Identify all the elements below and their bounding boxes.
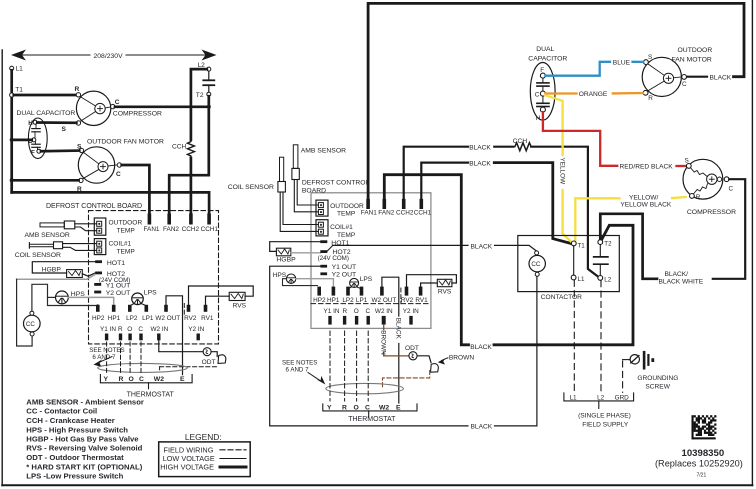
- svg-text:YELLOW BLACK: YELLOW BLACK: [620, 202, 672, 209]
- contactor box: [518, 236, 620, 292]
- terminal R compressor right: [690, 194, 695, 199]
- wire CC top to HPS/HP2: [32, 284, 98, 311]
- node T1: [10, 93, 14, 97]
- terminal F dual cap: [37, 149, 41, 153]
- page border bottom: [2, 484, 752, 486]
- terminal HOT1 middle: [320, 240, 327, 243]
- svg-text:T1: T1: [15, 87, 23, 94]
- terminal W2 IN middle: [382, 316, 386, 325]
- svg-text:BLACK: BLACK: [710, 75, 732, 82]
- svg-text:Y2 IN: Y2 IN: [188, 326, 204, 333]
- terminal T1 contactor: [571, 241, 576, 246]
- wire contactor T2 to compressor C (BLACK/BLACK WHITE): [600, 214, 657, 279]
- connector COIL#1 TEMP middle: [316, 220, 328, 236]
- wire compressor C to T2 node: [115, 105, 209, 108]
- wire L1 rail to fan R: [12, 179, 79, 182]
- svg-text:RV2: RV2: [184, 315, 197, 322]
- svg-text:ODT: ODT: [405, 345, 419, 352]
- junction dot L1/fan R: [10, 178, 14, 182]
- wire L2 to CCH2 rail: [191, 69, 207, 139]
- svg-text:HPS: HPS: [273, 272, 287, 279]
- svg-text:RVS: RVS: [438, 288, 452, 295]
- terminal W2 OUT middle: [380, 287, 384, 296]
- wire HPS to HP2: [283, 279, 318, 286]
- splice connector flag middle: [431, 364, 439, 373]
- svg-text:COIL SENSOR: COIL SENSOR: [15, 252, 61, 259]
- svg-text:TEMP: TEMP: [337, 211, 356, 218]
- 208/230V dimension arrow: [22, 54, 206, 56]
- svg-text:THERMOSTAT: THERMOSTAT: [348, 416, 396, 423]
- wire FAN2 to contactor T2: [384, 175, 468, 345]
- terminal HOT2 left: [95, 272, 102, 275]
- svg-text:R: R: [696, 194, 701, 201]
- svg-text:H: H: [28, 120, 33, 127]
- svg-text:BLACK: BLACK: [471, 424, 493, 431]
- wire 24V COM to CC bottom (gray): [17, 274, 96, 279]
- terminal R middle: [343, 316, 346, 325]
- terminal Y2 IN: [197, 334, 200, 341]
- wire ODT to splice middle: [417, 356, 431, 363]
- svg-text:L1: L1: [16, 66, 24, 73]
- svg-text:S: S: [648, 54, 652, 61]
- terminal C: [139, 334, 142, 341]
- svg-text:S: S: [685, 158, 689, 165]
- wire HOT2 to CC top (24v): [327, 245, 333, 251]
- svg-text:CCH - Crankcase Heater: CCH - Crankcase Heater: [26, 416, 114, 425]
- capacitor plates H-C: [35, 124, 37, 128]
- grounding screw: [630, 355, 639, 364]
- terminal S compressor right: [686, 164, 691, 169]
- svg-text:HPS - High Pressure Switch: HPS - High Pressure Switch: [26, 425, 128, 434]
- wire HPS to HP1 (gray): [68, 297, 113, 304]
- terminal R fan motor: [79, 178, 83, 182]
- svg-text:SCREW: SCREW: [645, 384, 670, 391]
- hard start capacitor T2-L2: [599, 245, 601, 257]
- node T2: [207, 92, 211, 96]
- svg-text:R: R: [118, 326, 123, 333]
- terminal HP2: [96, 305, 100, 312]
- svg-text:HGBP: HGBP: [42, 267, 62, 274]
- svg-text:Y1 OUT: Y1 OUT: [332, 264, 357, 271]
- terminal Y2 OUT left: [94, 291, 101, 294]
- terminal S compressor: [76, 121, 80, 125]
- terminal RV1 middle: [419, 287, 423, 296]
- terminal LP2 middle: [346, 287, 350, 296]
- ground symbol: [643, 351, 646, 370]
- wire HPS to HP1 (gray): [296, 279, 334, 287]
- svg-text:C: C: [729, 185, 734, 192]
- terminal C compressor: [111, 104, 115, 108]
- svg-text:(SINGLE PHASE): (SINGLE PHASE): [578, 412, 631, 419]
- wire COIL sensor to connector middle: [280, 192, 318, 231]
- wire L1 rail to CCH1 terminal: [12, 192, 209, 214]
- terminal Y2 IN middle: [409, 316, 412, 325]
- wires LPS legs: [131, 304, 134, 306]
- svg-text:CCH: CCH: [513, 138, 528, 145]
- terminal HOT2 middle: [320, 250, 327, 253]
- connector COIL#1 TEMP: [94, 239, 106, 255]
- svg-text:CC - Contactor Coil: CC - Contactor Coil: [26, 407, 97, 416]
- svg-text:COIL#1: COIL#1: [330, 224, 353, 231]
- terminal HOT1 left: [95, 260, 102, 263]
- svg-text:R: R: [342, 308, 347, 315]
- svg-text:CCH1: CCH1: [414, 210, 432, 217]
- svg-text:W2 IN: W2 IN: [375, 308, 393, 315]
- svg-text:L1: L1: [578, 276, 585, 283]
- terminal RV1: [204, 305, 208, 312]
- svg-text:AMB SENSOR - Ambient Sensor: AMB SENSOR - Ambient Sensor: [26, 397, 144, 406]
- HGBP valve middle: [270, 242, 321, 252]
- junction dot C/T2: [207, 105, 211, 109]
- svg-text:GRD: GRD: [615, 395, 630, 402]
- svg-text:HP2: HP2: [92, 315, 105, 322]
- svg-text:RV1: RV1: [415, 297, 428, 304]
- svg-text:BLACK: BLACK: [469, 145, 491, 152]
- svg-text:LP2: LP2: [126, 315, 138, 322]
- CC contactor coil left: [24, 315, 41, 332]
- svg-text:W2 OUT: W2 OUT: [155, 315, 180, 322]
- wire ODT to field splice: [211, 352, 217, 357]
- dashed field wire C: [140, 342, 142, 373]
- terminal S fan motor: [79, 148, 83, 152]
- svg-text:DUAL: DUAL: [536, 46, 554, 53]
- terminal C middle: [367, 316, 370, 325]
- svg-text:COMPRESSOR: COMPRESSOR: [113, 110, 162, 117]
- svg-text:FIELD SUPPLY: FIELD SUPPLY: [582, 422, 629, 429]
- svg-text:FAN2: FAN2: [163, 226, 179, 233]
- svg-text:TEMP: TEMP: [117, 248, 136, 255]
- svg-text:FAN1: FAN1: [144, 226, 160, 233]
- terminal FAN2: [167, 214, 171, 225]
- svg-text:AMB SENSOR: AMB SENSOR: [301, 148, 346, 155]
- node L1: [10, 66, 14, 70]
- terminal Y1 OUT middle: [320, 265, 327, 268]
- svg-text:O: O: [354, 308, 359, 315]
- CC contactor coil: [529, 255, 545, 271]
- svg-text:BOARD: BOARD: [302, 187, 326, 194]
- svg-text:TEMP: TEMP: [337, 232, 356, 239]
- dashed field wire C middle: [367, 331, 369, 401]
- svg-text:BLACK: BLACK: [471, 243, 493, 250]
- svg-text:C: C: [365, 308, 370, 315]
- svg-text:CCH2: CCH2: [396, 210, 414, 217]
- svg-text:DUAL CAPACITOR: DUAL CAPACITOR: [17, 110, 76, 117]
- svg-text:RVS - Reversing Valve Solenoid: RVS - Reversing Valve Solenoid: [26, 444, 142, 453]
- wire W2 OUT to thermostat E: [166, 296, 183, 375]
- dashed field supply L1: [573, 280, 575, 392]
- wire T2 down to FAN2 terminal: [169, 96, 209, 214]
- connector OUTDOOR TEMP: [94, 218, 106, 235]
- capacitor plates C-F: [35, 142, 37, 144]
- svg-text:CC: CC: [531, 261, 540, 268]
- svg-text:H: H: [536, 115, 541, 122]
- svg-text:BROWN: BROWN: [449, 355, 475, 362]
- svg-text:(24V COM): (24V COM): [318, 255, 349, 262]
- svg-text:COIL SENSOR: COIL SENSOR: [228, 184, 274, 191]
- svg-text:Y1 IN: Y1 IN: [324, 308, 340, 315]
- svg-text:HP1: HP1: [108, 315, 121, 322]
- terminal W2 OUT: [164, 305, 168, 312]
- svg-text:CCH: CCH: [172, 143, 187, 150]
- svg-text:R: R: [648, 95, 653, 102]
- svg-text:L1: L1: [570, 395, 578, 402]
- HPS middle: [286, 274, 295, 283]
- svg-text:OUTDOOR FAN MOTOR: OUTDOOR FAN MOTOR: [87, 138, 164, 145]
- svg-text:FAN MOTOR: FAN MOTOR: [672, 56, 712, 63]
- dashed field wire O: [129, 342, 131, 373]
- svg-text:LP1: LP1: [356, 297, 368, 304]
- node L2: [207, 67, 211, 71]
- svg-text:O: O: [127, 326, 132, 333]
- wire RV1 to RVS: [206, 296, 230, 305]
- svg-text:(Replaces 10252920): (Replaces 10252920): [655, 459, 743, 469]
- capacitor plates F-C right: [542, 78, 544, 83]
- dashed field wire R middle: [344, 331, 346, 401]
- RVS reversing valve solenoid left: [229, 292, 245, 300]
- svg-text:F: F: [31, 149, 35, 156]
- terminal LP2: [128, 305, 132, 312]
- capacitor plates C-H right: [542, 96, 544, 103]
- datamatrix barcode: [692, 415, 717, 439]
- svg-text:Y2 OUT: Y2 OUT: [332, 272, 357, 279]
- junction dot L1/C: [10, 138, 14, 142]
- terminal Y1 OUT left: [94, 283, 101, 286]
- svg-text:W2 OUT: W2 OUT: [371, 297, 396, 304]
- terminal CCH2 middle: [402, 199, 406, 209]
- svg-text:GROUNDING: GROUNDING: [637, 375, 678, 382]
- svg-text:BLUE: BLUE: [613, 59, 631, 66]
- svg-text:6 AND 7: 6 AND 7: [286, 367, 310, 374]
- terminal F dual cap right: [540, 73, 545, 78]
- terminal Y1 IN: [105, 334, 108, 341]
- svg-text:C: C: [138, 326, 143, 333]
- wire AMB sensor to connector middle: [294, 180, 318, 212]
- svg-text:C: C: [535, 92, 540, 99]
- terminal C compressor right: [724, 177, 729, 182]
- terminal FAN2 middle: [383, 199, 387, 209]
- svg-text:F: F: [540, 67, 544, 74]
- svg-text:DEFROST CONTROL BOARD: DEFROST CONTROL BOARD: [46, 203, 142, 210]
- svg-text:W2 IN: W2 IN: [151, 326, 169, 333]
- compressor motor left: [76, 91, 110, 125]
- terminal CCH1: [207, 214, 211, 225]
- wire CCH1 to contactor T1: [421, 163, 468, 199]
- svg-text:LPS -Low Pressure Switch: LPS -Low Pressure Switch: [26, 472, 123, 481]
- svg-text:E: E: [180, 376, 185, 383]
- terminal L2 contactor: [598, 276, 603, 281]
- svg-text:SEE NOTES: SEE NOTES: [282, 360, 317, 367]
- connector OUTDOOR TEMP middle: [316, 200, 328, 216]
- svg-text:L2: L2: [604, 276, 611, 283]
- svg-text:Y2 OUT: Y2 OUT: [106, 290, 131, 297]
- ORANGE wire cap C to fan R: [545, 92, 576, 94]
- svg-text:ODT - Outdoor Thermostat: ODT - Outdoor Thermostat: [26, 453, 124, 462]
- terminal FAN1 middle: [366, 199, 370, 209]
- wire RV2 to RVS middle: [407, 275, 457, 287]
- svg-text:BLACK WHITE: BLACK WHITE: [659, 279, 704, 286]
- svg-text:CCH1: CCH1: [201, 226, 219, 233]
- field supply bracket: [564, 393, 634, 401]
- svg-text:R: R: [119, 376, 124, 383]
- svg-text:LPS: LPS: [360, 276, 373, 283]
- terminal LP1 middle: [360, 287, 364, 296]
- dashed field supply GRD: [622, 361, 624, 392]
- svg-text:ORANGE: ORANGE: [579, 91, 608, 98]
- terminal CCH1 middle: [420, 199, 424, 209]
- svg-text:Y1 OUT: Y1 OUT: [106, 282, 131, 289]
- svg-text:LPS: LPS: [144, 290, 157, 297]
- svg-text:HGBP - Hot Gas By Pass Valve: HGBP - Hot Gas By Pass Valve: [26, 435, 139, 444]
- compressor right: [683, 159, 723, 199]
- svg-text:DEFROST CONTROL: DEFROST CONTROL: [302, 180, 370, 187]
- svg-text:RVS: RVS: [233, 302, 247, 309]
- terminal R compressor: [76, 93, 80, 97]
- svg-text:Y2 IN: Y2 IN: [403, 308, 419, 315]
- svg-text:FAN1: FAN1: [361, 210, 377, 217]
- terminal FAN1: [148, 214, 152, 225]
- svg-text:LP2: LP2: [342, 297, 354, 304]
- svg-text:OUTDOOR: OUTDOOR: [109, 219, 143, 226]
- HGBP valve left: [32, 262, 95, 273]
- terminal HP1: [112, 305, 116, 312]
- svg-text:RV2: RV2: [401, 297, 414, 304]
- svg-text:CC: CC: [26, 321, 35, 328]
- svg-text:CAPACITOR: CAPACITOR: [528, 55, 567, 62]
- wire cap H to compressor S: [37, 121, 76, 124]
- svg-text:C: C: [139, 376, 144, 383]
- wire FAN1 to top rail across to right fan motor: [368, 3, 744, 199]
- svg-text:TEMP: TEMP: [117, 227, 136, 234]
- terminal S fan right: [644, 60, 649, 65]
- svg-text:OUTDOOR: OUTDOOR: [678, 47, 713, 54]
- svg-text:BLACK: BLACK: [470, 344, 492, 351]
- svg-text:RED/RED BLACK: RED/RED BLACK: [620, 164, 674, 171]
- terminal R: [119, 334, 122, 341]
- terminal T2 contactor: [598, 240, 603, 245]
- terminal Y1 IN middle: [328, 316, 331, 325]
- dashed brown field wire to thermostat W2: [383, 371, 430, 388]
- terminal H dual cap: [33, 120, 37, 124]
- wire AMB sensor to connector: [75, 223, 97, 225]
- svg-text:LP1: LP1: [142, 315, 154, 322]
- svg-text:HOT1: HOT1: [107, 260, 125, 267]
- wire W2 IN to ODT: [159, 340, 203, 351]
- dashed field supply L2: [600, 281, 602, 393]
- dashed field wire Y middle: [329, 331, 331, 401]
- thermostat oval middle: [326, 383, 404, 393]
- wire fan C to FAN1 terminal: [122, 165, 150, 215]
- terminal C dual cap: [32, 138, 36, 142]
- hard start capacitor L2-T2: [208, 71, 210, 80]
- wire CCH2 to CCH and L2: [404, 147, 468, 199]
- svg-text:BROWN: BROWN: [379, 330, 386, 355]
- AMB sensor probe: [40, 223, 64, 227]
- thermostat oval left: [98, 363, 188, 372]
- dashed field wire Y: [106, 342, 108, 373]
- terminal RV2: [187, 305, 191, 312]
- wire RV1 to RVS middle: [421, 283, 438, 287]
- dashed field wire O middle: [356, 331, 358, 401]
- svg-text:RV1: RV1: [201, 315, 214, 322]
- svg-text:* HARD START KIT (OPTIONAL): * HARD START KIT (OPTIONAL): [26, 462, 142, 471]
- svg-text:Y: Y: [104, 376, 109, 383]
- RED wire cap H to compressor S: [543, 112, 617, 166]
- terminal O middle: [355, 316, 358, 325]
- svg-text:S: S: [62, 126, 67, 133]
- svg-text:LEGEND:: LEGEND:: [185, 432, 222, 442]
- abbreviation list: [26, 397, 144, 480]
- terminal R fan right: [643, 90, 648, 95]
- terminal W2 IN: [157, 334, 160, 341]
- terminal Y2 OUT middle: [320, 272, 327, 275]
- svg-text:COIL#1: COIL#1: [109, 240, 132, 247]
- svg-text:BLACK/: BLACK/: [665, 271, 689, 278]
- ODT middle: [409, 352, 417, 360]
- svg-text:OUTDOOR: OUTDOOR: [330, 203, 364, 210]
- YELLOW wire cap C to contactor T1: [545, 95, 562, 155]
- terminal RV2 middle: [405, 287, 409, 296]
- terminal C dual cap right: [540, 91, 545, 96]
- svg-text:FAN2: FAN2: [378, 210, 394, 217]
- svg-text:T2: T2: [604, 241, 612, 248]
- contact T1-L1: [573, 246, 575, 275]
- svg-text:HP2: HP2: [313, 297, 326, 304]
- dashed separator RV group: [183, 304, 185, 317]
- wire RV2 to RVS: [189, 286, 254, 305]
- svg-text:HGBP: HGBP: [276, 257, 296, 264]
- svg-text:10398350: 10398350: [682, 448, 725, 459]
- svg-text:W2: W2: [154, 376, 164, 383]
- page border left: [1, 50, 3, 486]
- wire L1 rail: [10, 70, 13, 93]
- svg-text:CONTACTOR: CONTACTOR: [541, 294, 582, 301]
- dashed field wire ODT to thermostat W2: [160, 366, 219, 368]
- terminal HP2 middle: [317, 287, 321, 296]
- svg-text:T1: T1: [578, 242, 586, 249]
- terminal HP1 middle: [332, 287, 336, 296]
- wire W2 IN to ODT (BROWN): [383, 325, 385, 330]
- svg-text:ODT: ODT: [202, 359, 216, 366]
- dashed field wire R: [120, 342, 122, 373]
- ODT outdoor thermostat left: [203, 348, 211, 356]
- svg-text:CCH2: CCH2: [182, 226, 200, 233]
- defrost control board middle (solid): [311, 193, 431, 329]
- svg-text:C: C: [115, 99, 120, 106]
- LPS middle: [350, 278, 359, 287]
- terminal CCH2: [189, 214, 193, 225]
- terminal H dual cap right: [540, 107, 545, 112]
- svg-text:COMPRESSOR: COMPRESSOR: [687, 209, 736, 216]
- wire CCH to CCH2 terminal: [190, 158, 193, 215]
- svg-text:7/21: 7/21: [697, 472, 707, 478]
- terminal O: [128, 334, 131, 341]
- terminal C fan right: [682, 75, 687, 80]
- wire Y1 OUT to CC bottom (black): [270, 266, 468, 426]
- wire cap F to fan S: [41, 149, 79, 152]
- page border right: [751, 0, 753, 486]
- terminal C fan motor: [117, 163, 121, 167]
- wire T1 to compressor R: [14, 94, 76, 97]
- svg-text:BLACK: BLACK: [395, 318, 402, 340]
- svg-text:HIGH VOLTAGE: HIGH VOLTAGE: [160, 463, 214, 472]
- svg-text:C: C: [682, 81, 687, 88]
- terminal LP1: [145, 305, 149, 312]
- wire L1 rail to cap C: [12, 139, 32, 142]
- svg-text:HP1: HP1: [327, 297, 340, 304]
- wire W2 OUT to thermostat E (BLACK): [382, 277, 399, 316]
- svg-text:BLACK: BLACK: [469, 161, 491, 168]
- HPS high pressure switch left: [56, 291, 69, 304]
